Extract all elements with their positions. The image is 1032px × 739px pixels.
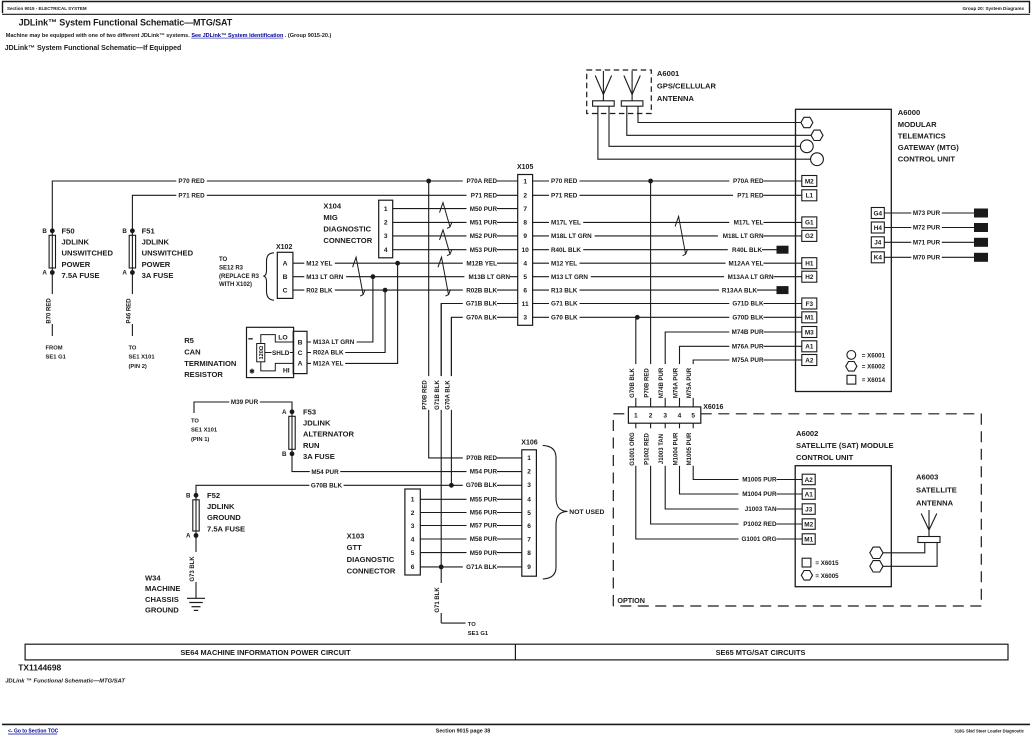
svg-text:4: 4 [527,497,531,504]
net label P71 RED [467,191,498,200]
svg-text:POWER: POWER [142,260,171,269]
connector X104 text block [323,201,372,245]
net label M17L YEL [549,218,583,227]
terminator M70 PUR [974,253,988,262]
svg-text:M57 PUR: M57 PUR [470,523,498,530]
svg-text:1: 1 [411,497,415,504]
wire M70 PUR from K4 [884,256,974,258]
svg-text:M58 PUR: M58 PUR [470,536,498,543]
svg-text:<- Go to Section TOC: <- Go to Section TOC [8,729,59,735]
A6001 text block [657,69,717,103]
brace NOT USED [543,445,568,579]
svg-text:TO: TO [219,257,228,263]
net label M1004 PUR [739,490,777,499]
svg-text:7.5A FUSE: 7.5A FUSE [62,271,100,280]
connector X103 text block [347,532,396,576]
svg-text:X103: X103 [347,532,365,541]
wire M39 PUR [194,402,292,413]
net label G71B BLK [463,299,498,308]
header right tick [1029,2,1031,14]
connector X6005 hex top [870,547,883,558]
svg-text:(REPLACE R3: (REPLACE R3 [219,274,260,280]
fuse F50 JDLINK UNSWITCHED POWER 7.5A FUSE [42,226,113,280]
net label M57 PUR [467,521,498,530]
svg-text:F3: F3 [806,301,814,308]
net label M13 LT GRN [304,272,346,281]
svg-text:R5: R5 [184,336,194,345]
connector X103 [405,489,420,575]
svg-text:M54 PUR: M54 PUR [311,469,339,476]
svg-text:JDLINK: JDLINK [142,238,170,247]
wire G70A BLK vertical [450,317,452,485]
svg-text:MIG: MIG [323,213,337,222]
wire G71B BLK to X105 pin 11 [441,304,518,384]
net label P71 RED [733,191,764,200]
wire G1001 ORG X6016-1 to A6002 M1 [636,423,802,539]
A6000 pin M1 [802,312,817,323]
antenna symbol [593,71,615,106]
svg-text:4: 4 [523,261,527,268]
svg-text:MODULAR: MODULAR [898,120,937,129]
svg-text:M12B YEL: M12B YEL [466,260,497,267]
wire G70A BLK to X105 pin 3 [451,317,517,383]
wire X103 pin 6 to X106 pin 9 [420,566,522,568]
svg-text:M2: M2 [804,521,813,528]
terminator R13AA BLK [777,286,789,294]
net label R40L BLK [728,245,763,254]
wire antenna2 left leg [627,106,811,135]
svg-text:G71A BLK: G71A BLK [466,564,497,571]
twisted-pair mark M12B/M13B/R02B [438,257,451,296]
wire G70D BLK row to A6000 M1 [533,316,802,318]
junction R02 BLK / R02A BLK [383,288,388,293]
svg-text:M54 PUR: M54 PUR [470,469,498,476]
svg-text:RESISTOR: RESISTOR [184,370,223,379]
net label G1001 ORG [630,428,640,466]
svg-text:2: 2 [527,469,531,476]
svg-text:M53 PUR: M53 PUR [470,247,498,254]
svg-text:Section 9015 page 38: Section 9015 page 38 [436,729,491,735]
header rule [2,13,1030,15]
svg-text:GROUND: GROUND [145,606,179,615]
connector X105 [518,175,533,326]
net label R13 BLK [549,286,580,295]
svg-text:6: 6 [527,523,531,530]
svg-text:6: 6 [523,287,527,294]
svg-text:CHASSIS: CHASSIS [145,595,179,604]
net label M13B LT GRN [464,272,510,281]
wire P46 RED below F51 [131,273,133,337]
svg-text:CONTROL UNIT: CONTROL UNIT [898,155,956,164]
svg-text:M1005 PUR: M1005 PUR [687,432,693,465]
svg-text:F52: F52 [207,491,220,500]
net label M13 LT GRN [549,272,591,281]
fuse F52 JDLINK GROUND 7.5A FUSE [186,491,245,540]
svg-text:A: A [186,533,191,540]
svg-text:X102: X102 [276,244,292,251]
connector X6005 hex bottom [870,561,883,572]
svg-text:A6001: A6001 [657,69,680,78]
svg-text:X105: X105 [517,164,533,171]
svg-text:F51: F51 [142,226,156,235]
net label M73 PUR [911,209,942,218]
fuse F51 JDLINK UNSWITCHED POWER 3A FUSE [122,226,193,280]
svg-text:P70B RED: P70B RED [645,368,651,398]
svg-text:= X6002: = X6002 [862,364,886,371]
net label M13AA LT GRN [724,272,774,281]
svg-text:JDLink ™ Functional Schematic—: JDLink ™ Functional Schematic—MTG/SAT [5,679,125,685]
node TO SE1 X101 (PIN 1) [191,419,218,443]
svg-text:P70B RED: P70B RED [466,455,497,462]
A6000 pin A2 [802,355,817,366]
junction M13 LT GRN / M13A LT GRN [371,274,376,279]
svg-text:L1: L1 [806,193,814,200]
svg-text:GPS/CELLULAR: GPS/CELLULAR [657,82,717,91]
net label M70 PUR [911,253,942,262]
svg-text:A6000: A6000 [898,108,920,117]
svg-text:3A FUSE: 3A FUSE [303,452,335,461]
svg-text:J3: J3 [805,506,813,513]
svg-text:JDLink™ System Functional Sche: JDLink™ System Functional Schematic—MTG/… [19,18,233,28]
svg-text:M3: M3 [805,329,814,336]
svg-text:WITH X102): WITH X102) [219,282,252,288]
svg-text:6: 6 [411,564,415,571]
svg-text:M17L YEL: M17L YEL [734,220,764,227]
wire M1004 PUR X6016-4 to A6002 A1 [680,423,803,494]
svg-text:J4: J4 [874,240,882,247]
A6000 antenna connector X6002 hex 2 [811,130,823,140]
svg-text:SE65 MTG/SAT CIRCUITS: SE65 MTG/SAT CIRCUITS [716,648,806,657]
svg-text:R02 BLK: R02 BLK [306,287,333,294]
svg-text:M51 PUR: M51 PUR [470,220,498,227]
twisted-pair mark M17L/M18L/R40L [675,216,688,255]
svg-text:P71 RED: P71 RED [178,193,205,200]
antenna A6001 dashed outline [587,70,652,114]
svg-text:M13A LT GRN: M13A LT GRN [313,339,355,346]
A6002 legend [801,558,839,580]
A6000 pin H2 [802,271,817,282]
junction G70A BLK / G70B BLK [449,483,454,488]
svg-text:RUN: RUN [303,441,319,450]
svg-text:A1: A1 [805,344,814,351]
svg-text:11: 11 [522,301,529,308]
net label M76A PUR [674,364,684,398]
W34 text block [145,574,180,615]
A6000 pin G2 [802,230,817,241]
wire G73 BLK below F52 [195,536,197,599]
svg-text:3: 3 [663,412,667,419]
net label M12A YEL [311,359,345,368]
A6000 pin J4 [871,237,884,248]
A6000 pin M2 [802,176,817,187]
svg-text:4: 4 [411,536,415,543]
legend bar [25,644,1008,660]
svg-text:G1: G1 [805,220,814,227]
A6000 antenna connector X6001 circle 1 [800,140,813,153]
terminator M71 PUR [974,238,988,247]
A6002 pin M1 [802,534,815,545]
svg-text:A1: A1 [805,491,814,498]
svg-text:A6003: A6003 [916,472,938,481]
net label M71 PUR [911,238,942,247]
svg-text:P71 RED: P71 RED [737,193,764,200]
R5 text block [184,336,236,379]
net label M54 PUR [467,467,498,476]
wire M72 PUR from H4 [884,227,974,229]
net label P1002 RED [739,520,777,529]
svg-text:M55 PUR: M55 PUR [470,497,498,504]
wire M13 LT GRN X102-B to X105 pin 5 [293,276,518,278]
antenna A6003 symbol [918,510,940,543]
net label M52 PUR [467,232,498,241]
svg-text:M1: M1 [804,536,813,543]
svg-text:M18L LT GRN: M18L LT GRN [723,233,764,240]
svg-text:A2: A2 [805,357,814,364]
wire M71 PUR from J4 [884,241,974,243]
net label M56 PUR [467,508,498,517]
A6000 pin K4 [871,252,884,263]
svg-text:M18L LT GRN: M18L LT GRN [551,233,592,240]
wire M12A YEL R5-A [307,263,398,363]
wire M12 YEL X102-A to X105 pin 4 [293,262,518,264]
net label M55 PUR [467,495,498,504]
svg-text:G70B BLK: G70B BLK [630,367,636,397]
net label R02A BLK [311,348,345,357]
A6000 pin G4 [871,208,884,219]
svg-text:7: 7 [523,206,527,213]
svg-text:M12AA YEL: M12AA YEL [729,260,764,267]
svg-text:10: 10 [521,247,529,254]
net label M76A PUR [729,342,764,351]
svg-text:X6016: X6016 [703,404,723,411]
net label P70B RED [645,364,655,398]
svg-text:2: 2 [649,412,653,419]
svg-text:✱: ✱ [249,368,255,376]
svg-text:M1005 PUR: M1005 PUR [742,477,777,484]
net label G71B BLK [435,376,445,410]
net label P46 RED [126,294,136,324]
svg-text:Group 20: System Diagrams: Group 20: System Diagrams [962,6,1024,11]
fuse F53 JDLINK ALTERNATOR RUN 3A FUSE [282,407,355,461]
A6003 text block [916,472,957,507]
net label G71A BLK [463,563,498,572]
junction P70B RED on P70 RED [648,179,653,184]
wire B70 RED below F50 [51,273,53,337]
svg-text:JDLink™ System Functional Sche: JDLink™ System Functional Schematic—If E… [5,45,182,52]
svg-text:SHLD: SHLD [272,350,290,357]
svg-text:3: 3 [411,523,415,530]
svg-text:TX1144698: TX1144698 [18,663,61,673]
wire P71 RED row to A6000 L1 [533,194,802,196]
svg-text:M1: M1 [805,315,814,322]
svg-text:X104: X104 [323,201,342,210]
wire M54 PUR to X106 pin 2 [292,454,522,472]
svg-text:G71B BLK: G71B BLK [466,301,498,308]
svg-text:R40L BLK: R40L BLK [732,247,762,254]
wire R02 BLK X102-C to X105 pin 6 [293,289,518,291]
A6000 pin H4 [871,222,884,233]
A6002 pin J3 [802,504,815,515]
svg-text:NOT USED: NOT USED [569,509,604,516]
net label G70A BLK [445,376,455,410]
svg-text:CAN: CAN [184,347,200,356]
svg-text:SE1 X101: SE1 X101 [191,428,218,434]
wire G71D BLK row to A6000 F3 [533,303,802,305]
A6002 pin A2 [802,474,815,485]
wire M52 PUR X104-3 to X105 pin 9 [393,235,518,237]
wire stub TO SE1 G1 [441,622,465,624]
svg-text:M72 PUR: M72 PUR [913,225,941,232]
net label P70 RED [549,177,580,186]
twisted-pair mark M50/M51 [440,203,453,229]
terminator R40L BLK [777,246,789,254]
svg-text:ALTERNATOR: ALTERNATOR [303,430,355,439]
connector X104 [379,200,393,258]
svg-text:M56 PUR: M56 PUR [470,510,498,517]
svg-text:G2: G2 [805,233,814,240]
svg-text:G4: G4 [874,210,883,217]
net label G70 BLK [549,313,580,322]
svg-text:8: 8 [523,220,527,227]
svg-text:G70A BLK: G70A BLK [466,315,497,322]
wire M73 PUR from G4 [884,212,974,214]
svg-text:A: A [282,409,287,416]
control unit A6002 box [795,466,891,587]
net label G71 BLK [435,583,445,613]
net label M39 PUR [229,398,259,407]
A6000 pin H1 [802,258,817,269]
net label M58 PUR [467,535,498,544]
svg-text:M59 PUR: M59 PUR [470,550,498,557]
svg-text:LO: LO [278,335,287,342]
svg-text:OPTION: OPTION [617,596,645,605]
wire M1005 PUR X6016-5 to A6002 A2 [693,423,802,479]
A6000 antenna connector X6001 circle 2 [811,153,824,166]
svg-text:5: 5 [691,412,695,419]
svg-text:P46 RED: P46 RED [126,298,132,324]
svg-text:A: A [283,261,288,268]
svg-text:R02A BLK: R02A BLK [313,350,344,357]
svg-text:8: 8 [527,550,531,557]
svg-text:A: A [298,361,303,368]
svg-text:G71B BLK: G71B BLK [435,379,441,409]
svg-text:UNSWITCHED: UNSWITCHED [142,249,194,258]
A6000 pin A1 [802,341,817,352]
svg-text:G70B BLK: G70B BLK [466,482,498,489]
A6000 pin M3 [802,327,817,338]
svg-text:ANTENNA: ANTENNA [916,499,954,508]
svg-text:7: 7 [527,536,531,543]
svg-text:TELEMATICS: TELEMATICS [898,131,946,140]
wire antenna1 left leg [598,106,811,159]
wire antenna2 right leg [638,106,801,122]
net label M1005 PUR [739,475,777,484]
svg-text:A: A [42,270,47,277]
svg-text:SE12 R3: SE12 R3 [219,265,244,271]
svg-text:C: C [283,287,288,294]
net label G70D BLK [729,313,764,322]
net label M1004 PUR [674,428,684,466]
svg-text:5: 5 [523,274,527,281]
svg-text:H4: H4 [874,225,883,232]
svg-text:M71 PUR: M71 PUR [913,240,941,247]
svg-text:M1004 PUR: M1004 PUR [674,432,680,465]
wire M74B PUR to A6000 M3 [665,332,802,407]
svg-text:M73 PUR: M73 PUR [913,210,941,217]
svg-text:4: 4 [384,247,388,254]
net label M74B PUR [659,364,669,398]
junction M12 YEL / M12A YEL [395,261,400,266]
svg-text:M12 YEL: M12 YEL [306,260,332,267]
svg-text:M13B LT GRN: M13B LT GRN [468,274,510,281]
svg-text:B: B [186,493,191,500]
net label G70B BLK [309,481,343,490]
svg-text:5: 5 [527,510,531,517]
svg-text:GATEWAY (MTG): GATEWAY (MTG) [898,143,960,152]
net label R40L BLK [549,245,583,254]
net label M53 PUR [467,245,498,254]
svg-text:SE1 X101: SE1 X101 [129,355,156,361]
svg-text:DIAGNOSTIC: DIAGNOSTIC [323,225,371,234]
net label G70A BLK [463,313,498,322]
svg-text:P1002 RED: P1002 RED [645,432,651,464]
svg-text:M12 YEL: M12 YEL [551,260,577,267]
svg-text:B: B [122,228,127,235]
connector X102 [277,252,293,298]
svg-text:DIAGNOSTIC: DIAGNOSTIC [347,555,395,564]
svg-text:2: 2 [523,193,527,200]
svg-text:M39 PUR: M39 PUR [231,399,259,406]
header left tick [2,2,4,14]
svg-text:M17L YEL: M17L YEL [551,220,581,227]
net label P1002 RED [645,428,655,466]
svg-text:1: 1 [384,206,388,213]
svg-text:M50 PUR: M50 PUR [470,206,498,213]
svg-text:= X6001: = X6001 [862,352,886,359]
svg-text:2: 2 [411,510,415,517]
bracket at X102 [263,253,274,300]
wire G70B BLK drop to X6016 pin 1 [635,317,637,407]
svg-text:J1003 TAN: J1003 TAN [745,506,777,513]
svg-text:SE64 MACHINE INFORMATION POWER: SE64 MACHINE INFORMATION POWER CIRCUIT [180,648,351,657]
net label M12 YEL [304,259,335,268]
svg-text:JDLINK: JDLINK [207,502,235,511]
A6002 text block [796,429,894,462]
svg-text:SE1 G1: SE1 G1 [46,355,67,361]
net label M75A PUR [687,364,697,398]
svg-text:M12A YEL: M12A YEL [313,361,344,368]
wire X103 pin 5 to X106 pin 8 [420,552,522,554]
A6000 antenna connector X6002 hex 1 [801,117,813,127]
wire M13AA LT GRN row to A6000 H2 [533,276,802,278]
wire A6003 to X6005 hex bottom [883,543,937,567]
svg-text:P1002 RED: P1002 RED [743,521,777,528]
svg-text:= X6014: = X6014 [862,377,886,384]
wire M13A LT GRN R5-B [307,277,373,342]
svg-text:G70A BLK: G70A BLK [445,380,451,410]
svg-text:3: 3 [523,315,527,322]
net label J1003 TAN [739,505,777,514]
svg-text:G70D BLK: G70D BLK [732,315,764,322]
net label G71 BLK [549,299,580,308]
net label G73 BLK [190,552,200,582]
svg-text:K4: K4 [874,255,883,262]
svg-text:G1001 ORG: G1001 ORG [742,536,777,543]
svg-text:SATELLITE (SAT) MODULE: SATELLITE (SAT) MODULE [796,441,894,450]
wire P70B RED drop to X6016 pin 2 [650,181,652,407]
svg-text:R40L BLK: R40L BLK [551,247,581,254]
svg-text:1: 1 [527,455,531,462]
